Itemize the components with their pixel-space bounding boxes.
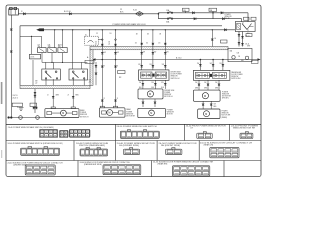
wire contact1 down: [41, 53, 43, 63]
page-link arrow on bus: [36, 28, 40, 31]
row2 row3 separator: [6, 160, 261, 162]
inline connector C-01 on feed wire: [70, 13, 72, 15]
svg-text:SWITCH LH: SWITCH LH: [171, 78, 181, 80]
connector 5W p: [222, 64, 224, 66]
wire bus drop to door boundary: [211, 30, 213, 47]
driver window UP/DOWN switch: [42, 69, 61, 80]
ground dot 2: [8, 116, 10, 118]
connector dm: [142, 83, 144, 85]
front switch pinout 7pin: [120, 131, 159, 138]
junction dot: [102, 29, 103, 30]
contact block DOWN: [48, 48, 56, 53]
wire switch1 left terminal to hatch: [45, 79, 47, 85]
svg-text:POWER: POWER: [167, 110, 174, 112]
main switch pinout right grid: [69, 129, 90, 137]
svg-text:-06: -06: [89, 82, 91, 84]
tab r2c1 b: [44, 147, 48, 149]
junction block label box 2: [209, 8, 217, 11]
connector label box C-03: [251, 17, 256, 20]
connector r1: [95, 65, 97, 67]
connector dm2: [142, 102, 144, 104]
svg-text:MOTOR RH: MOTOR RH: [222, 115, 231, 117]
connector above hatch: [114, 44, 116, 46]
wire drop to window switch 2: [72, 30, 74, 69]
wire branch vertical: [157, 13, 159, 19]
svg-text:WINDOW: WINDOW: [167, 112, 174, 114]
svg-text:B 01-10: B 01-10: [64, 11, 71, 13]
connector below relay 3: [238, 42, 240, 44]
svg-text:1B: 1B: [159, 34, 161, 36]
svg-text:SWITCH RH: SWITCH RH: [231, 78, 241, 80]
pinout 2pin r1c3: [197, 133, 212, 139]
wire passenger motor down x203.1: [202, 101, 204, 109]
wire relay to assembly 2: [242, 32, 244, 47]
svg-text:MOTOR RH: MOTOR RH: [126, 116, 135, 118]
row3 cell border x151.5: [151, 161, 153, 177]
svg-text:SWITCH (PASSENGER): SWITCH (PASSENGER): [79, 144, 105, 147]
junction dot: [200, 59, 202, 61]
wire drop to lockout switch: [31, 36, 33, 54]
svg-text:GRN: GRN: [204, 87, 207, 89]
ground bus horizontal: [8, 117, 45, 119]
tab r1c2 a: [128, 130, 131, 132]
svg-text:(DRIVER SIDE): (DRIVER SIDE): [13, 165, 27, 167]
row3 cell border x224.0: [223, 161, 225, 177]
connector above hatch d: [164, 43, 166, 45]
svg-text:24-40 POWER WINDOW MAIN SWITC: 24-40 POWER WINDOW MAIN SWITCH (DRIVER S…: [8, 142, 63, 145]
contact block AUTO: [58, 48, 67, 53]
svg-text:S-01: S-01: [133, 10, 137, 12]
junction dot: [152, 29, 153, 30]
connector below hatch: [101, 52, 103, 54]
svg-text:(PASSENGER SIDE): (PASSENGER SIDE): [84, 163, 102, 166]
connector mid: [114, 66, 116, 68]
connector below hatch d: [141, 52, 143, 54]
junction dot: [212, 29, 213, 30]
lockout switch box: [30, 54, 41, 59]
svg-text:2Z: 2Z: [96, 33, 98, 35]
svg-text:RED: RED: [214, 106, 217, 108]
svg-text:POWER: POWER: [222, 91, 229, 93]
row1 cell border b: [183, 124, 185, 140]
ground ref box 2: [30, 103, 37, 106]
motor pinout 2pin r2c4: [166, 149, 182, 155]
connector below relay 4: [241, 43, 243, 45]
wire hatch to ground bus: [34, 89, 36, 113]
label leader: [185, 11, 187, 12]
svg-text:24-01 G: 24-01 G: [13, 98, 19, 100]
svg-text:WINDOW: WINDOW: [222, 113, 229, 115]
page ref box right: [252, 61, 259, 64]
svg-text:MOTOR LH: MOTOR LH: [80, 116, 89, 118]
ground connector eyelet 2: [36, 116, 40, 120]
dashed illumination component: [85, 36, 99, 45]
junction dot: [31, 36, 32, 37]
junction dot: [212, 12, 214, 14]
wire switch1 right terminal down: [52, 79, 54, 85]
svg-text:WINDOW MOTOR RH: WINDOW MOTOR RH: [233, 128, 256, 130]
tab r2c2 b: [97, 148, 100, 150]
svg-text:BLU: BLU: [161, 87, 164, 89]
junction dot: [165, 29, 166, 30]
wire bus to driver switch x165.3: [164, 30, 166, 70]
svg-text:POWER: POWER: [126, 111, 133, 113]
svg-text:-01: -01: [108, 44, 110, 46]
svg-text:24-50 POWER WINDOW SUB SWITCH: 24-50 POWER WINDOW SUB SWITCH: [117, 126, 158, 128]
wire to rear motor LH pin2: [72, 89, 74, 107]
junction dot: [102, 59, 104, 61]
connector above hatch d: [141, 43, 143, 45]
passenger power window motor: [193, 90, 220, 101]
wire driver switch to motor x142.9: [142, 80, 144, 89]
row3 grid 2: [103, 165, 141, 175]
wire fuse branch lower: [158, 18, 241, 20]
wire switch bus: [42, 61, 87, 63]
rear power window motor RH: [100, 106, 126, 117]
junction dot: [51, 62, 52, 63]
circuit breaker box at hatch right end: [228, 48, 252, 61]
page ref box 24-0: [85, 60, 94, 63]
tab r2c1 a: [28, 147, 32, 149]
connector dm2: [154, 102, 156, 104]
wire into switch2 b: [80, 62, 82, 69]
wire switch2 right terminal to hatch: [83, 79, 85, 85]
svg-text:WINDOW: WINDOW: [126, 113, 133, 115]
svg-text:M: M: [204, 95, 206, 98]
junction dot: [89, 29, 90, 30]
wire drop to contact 3: [62, 30, 64, 48]
main switch assembly top edge: [20, 25, 222, 27]
inline connector near battery: [24, 13, 26, 15]
wire joining branches: [212, 13, 214, 19]
row3 grid 3: [173, 166, 210, 176]
connector on bus drop: [211, 39, 213, 41]
splice circle c1: [102, 39, 104, 41]
door switch pinout 6pin: [80, 149, 108, 156]
rear motor box center: [138, 108, 166, 117]
wire into switch1 b: [52, 62, 54, 69]
connector below ref box b: [35, 107, 37, 109]
wire window circuit bus: [96, 59, 258, 61]
wire bus to passenger switch x213.1: [212, 60, 214, 71]
svg-text:GRN: GRN: [215, 87, 218, 89]
svg-text:LH (DRIVER SIDE): LH (DRIVER SIDE): [119, 145, 139, 147]
row2 cell border x115.7: [115, 141, 117, 161]
svg-text:M: M: [150, 112, 152, 115]
pinout 2pin r1c4: [240, 133, 253, 139]
separator schematic to table: [6, 123, 261, 125]
svg-text:WHT: WHT: [247, 46, 250, 48]
svg-text:M: M: [205, 113, 207, 116]
svg-text:(REAR RH): (REAR RH): [158, 163, 168, 166]
junction dot: [115, 59, 117, 61]
wire central column x102.3: [101, 30, 103, 107]
wire passenger switch down x208: [207, 80, 209, 90]
lamp symbol: [88, 41, 94, 43]
connector dm: [154, 83, 156, 85]
main switch pinout mid grid: [60, 130, 69, 137]
wire switch2 left terminal down: [72, 79, 74, 85]
rear window switch: [69, 69, 88, 80]
main switch assembly left edge: [19, 26, 21, 86]
tab r2c3: [130, 148, 133, 150]
svg-text:DRIVER SIDE: DRIVER SIDE: [164, 90, 174, 92]
ground connector eyelet: [19, 116, 23, 120]
connector 5W d: [141, 65, 143, 67]
wire drop to contact 2: [54, 30, 56, 48]
svg-text:DOOR POWER: DOOR POWER: [171, 74, 183, 76]
fuse 30A lower: [167, 18, 173, 20]
inline connector on relay feed: [221, 12, 223, 14]
passenger door power window switch box: [193, 70, 230, 80]
junction dot: [62, 62, 63, 63]
connector ref box right of relay wires: [246, 34, 252, 37]
connector on lower branch: [194, 18, 196, 20]
svg-text:(FRONT): (FRONT): [222, 98, 229, 100]
connector below ref box a: [33, 107, 35, 109]
svg-text:BLU: BLU: [151, 87, 154, 89]
wire bus to relay: [44, 29, 235, 31]
connector 5W d: [152, 65, 154, 67]
wire contact3 down: [62, 53, 64, 63]
svg-text:-01: -01: [95, 44, 97, 46]
pinout tab r1c3: [203, 132, 206, 134]
junction dot: [115, 29, 116, 30]
connector above hatch: [101, 44, 103, 46]
svg-text:DRIVER SIDE: DRIVER SIDE: [171, 72, 181, 74]
wire lockout ground right: [95, 62, 97, 85]
connector pd: [207, 84, 209, 86]
tab r2c2 a: [86, 148, 89, 150]
junction dot: [158, 13, 160, 15]
connector below hatch d: [164, 52, 166, 54]
svg-text:1B: 1B: [147, 34, 149, 36]
row2 cell border x74.0: [73, 141, 75, 161]
connector 2I-04: [72, 96, 74, 98]
wire central column x115.5: [115, 30, 117, 107]
connector pd: [218, 84, 220, 86]
svg-text:POWER: POWER: [80, 112, 87, 114]
connector below relay: [238, 34, 240, 36]
wire battery box to ground: [10, 15, 12, 118]
svg-text:MOTOR: MOTOR: [167, 114, 174, 116]
svg-text:2G-04: 2G-04: [245, 36, 250, 38]
row2 cell border x199.2: [198, 141, 200, 161]
svg-text:1B: 1B: [110, 33, 112, 35]
wire passenger motor down x211.2: [210, 101, 212, 109]
junction dot: [212, 59, 214, 61]
connector 5W p: [212, 64, 214, 66]
connector q: [202, 104, 204, 106]
wire passenger switch down x199: [198, 80, 200, 90]
connector on upper branch: [193, 12, 195, 14]
splice S-01 diamond: [136, 12, 144, 17]
connector pd: [198, 84, 200, 86]
ground ref box: [12, 103, 22, 106]
connector above hatch d: [152, 43, 154, 45]
driver door power window switch box: [139, 70, 169, 80]
connector ref box 1G-04: [221, 40, 228, 43]
svg-text:POWER: POWER: [222, 111, 229, 113]
driver switch pinout 7pin: [21, 148, 60, 155]
junction dot: [54, 29, 55, 30]
connector mid: [101, 66, 103, 68]
connector on bus near relay: [225, 29, 227, 31]
wire corner down to contact 1: [41, 36, 43, 47]
driver side power window motor LH: [138, 89, 163, 99]
connector on ground wire 2: [10, 51, 12, 53]
sliding door contact LH pinout grid: [210, 148, 239, 158]
svg-text:RH (FRONT SIDE): RH (FRONT SIDE): [161, 145, 180, 147]
page link arrow right on bus: [258, 58, 261, 60]
svg-text:CB: CB: [238, 56, 240, 58]
svg-text:WINDOW: WINDOW: [222, 93, 229, 95]
connector below hatch d: [152, 52, 154, 54]
label leader 2: [212, 11, 214, 12]
wire contact2 down: [51, 53, 53, 63]
connector 5W p: [199, 64, 201, 66]
svg-text:MOTOR RH: MOTOR RH: [222, 96, 231, 98]
junction block label box: [183, 8, 190, 11]
wire into switch1 a: [45, 62, 47, 69]
row3 cell border x78.0: [77, 161, 79, 177]
svg-text:POWER WINDOWS MAIN SW 24-03: POWER WINDOWS MAIN SW 24-03: [113, 23, 147, 26]
svg-text:WINDOW: WINDOW: [231, 76, 238, 78]
svg-text:A 74-0: A 74-0: [176, 56, 181, 59]
junction dot: [72, 29, 73, 30]
junction dot: [10, 116, 12, 118]
power window relay box: [235, 22, 255, 32]
wire down to relay left pin: [241, 19, 243, 22]
junction dot: [62, 29, 63, 30]
wire bus to driver switch x141.7: [141, 30, 143, 70]
hatched boundary driver section bottom: [20, 85, 90, 88]
page outer border: [6, 5, 261, 177]
svg-text:24-40 POWER WINDOW MAIN SWITC: 24-40 POWER WINDOW MAIN SWITCH (ON BOARD…: [8, 126, 54, 129]
wire illumination to central: [98, 39, 102, 41]
connector below hatch: [114, 52, 116, 54]
svg-text:2I-07 B: 2I-07 B: [13, 95, 18, 97]
quarter window motor RH: [198, 109, 220, 119]
connector ref box: [118, 71, 125, 74]
row2 cell border x157.1: [156, 141, 158, 161]
hatched boundary upper section: [90, 47, 228, 50]
svg-text:BLU: BLU: [247, 33, 250, 35]
hatched boundary vertical join: [90, 50, 93, 86]
connector above ground b: [34, 95, 36, 97]
connector r2: [95, 73, 97, 75]
svg-text:MOTOR LH: MOTOR LH: [164, 96, 173, 98]
svg-text:LOCK: LOCK: [30, 57, 34, 59]
wire driver switch to motor x155.4: [154, 80, 156, 89]
svg-text:M: M: [149, 93, 151, 96]
pinout tab r1c4: [245, 132, 248, 134]
svg-text:WINDOW: WINDOW: [164, 94, 171, 96]
svg-text:DOOR POWER: DOOR POWER: [231, 74, 243, 76]
svg-text:M: M: [108, 112, 110, 115]
wire fuse branch upper: [158, 12, 248, 14]
scan artifact left edge: [1, 82, 3, 104]
wire driver motor down x143: [142, 99, 144, 107]
svg-text:(REAR LH): (REAR LH): [204, 144, 214, 147]
wire driver switch to motor x165.3: [164, 80, 166, 89]
wire down to relay right pin: [247, 13, 249, 22]
chassis ground symbol: [17, 107, 23, 111]
wire drop to illumination: [89, 30, 91, 36]
row3 grid 1: [25, 165, 55, 175]
svg-text:M: M: [62, 112, 64, 115]
contact strokes: [39, 49, 64, 52]
contact block UP: [38, 48, 47, 53]
svg-text:1B: 1B: [136, 34, 138, 36]
tab r2c4: [172, 148, 175, 150]
connector low: [101, 100, 103, 102]
junction dot: [222, 59, 224, 61]
tab r1c2 b: [144, 130, 147, 132]
svg-text:1G-11: 1G-11: [245, 44, 249, 46]
battery junction box B+: [9, 7, 19, 15]
connector label box C-02: [244, 17, 250, 20]
wire frame to contact 1: [20, 35, 42, 37]
wire bus to driver switch x152.9: [152, 30, 154, 70]
svg-text:UP: UP: [38, 44, 40, 46]
connector 2I-03: [52, 96, 54, 98]
connector 5W d: [164, 65, 166, 67]
junction dot: [141, 29, 142, 30]
svg-text:GRN: GRN: [195, 87, 198, 89]
row1 row2 separator: [6, 140, 261, 142]
wire bus to passenger switch x200.4: [199, 60, 201, 71]
page link arrow left on bus: [93, 58, 96, 60]
row1 cell border c: [229, 124, 231, 140]
main switch pinout left grid: [40, 129, 58, 137]
wire passenger switch down x219: [218, 80, 220, 90]
rear power window motor LH: [45, 107, 79, 118]
connector dm: [164, 83, 166, 85]
connector above ground a: [34, 92, 36, 94]
svg-text:POWER: POWER: [164, 92, 171, 94]
fuse 15A upper: [167, 12, 173, 14]
wire bus to passenger switch x222.9: [222, 60, 224, 71]
wire driver motor down x155: [154, 99, 156, 107]
wire relay to assembly: [238, 32, 240, 47]
connector q: [210, 104, 212, 106]
connector low: [114, 100, 116, 102]
wire battery feed to fuse branch: [18, 13, 158, 15]
splice circle c2: [115, 39, 117, 41]
row1 cell border a: [115, 124, 117, 140]
svg-text:WINDOW: WINDOW: [225, 16, 232, 18]
svg-text:WINDOW: WINDOW: [171, 76, 178, 78]
connector below relay 2: [241, 36, 243, 38]
motor pinout 2pin r2c3: [124, 149, 140, 155]
wire to rear motor LH pin1: [52, 89, 54, 107]
svg-text:GRN: GRN: [56, 95, 59, 97]
svg-text:C/B: C/B: [237, 53, 240, 55]
connector lower branch b: [223, 18, 225, 20]
svg-text:WINDOW: WINDOW: [80, 114, 87, 116]
svg-text:-02: -02: [35, 83, 37, 85]
svg-text:BLU: BLU: [139, 87, 142, 89]
wire lockout to hatch: [32, 60, 34, 85]
svg-text:POWER: POWER: [225, 14, 232, 16]
connector on ground wire 1: [10, 29, 12, 31]
svg-text:ILL: ILL: [85, 34, 87, 36]
